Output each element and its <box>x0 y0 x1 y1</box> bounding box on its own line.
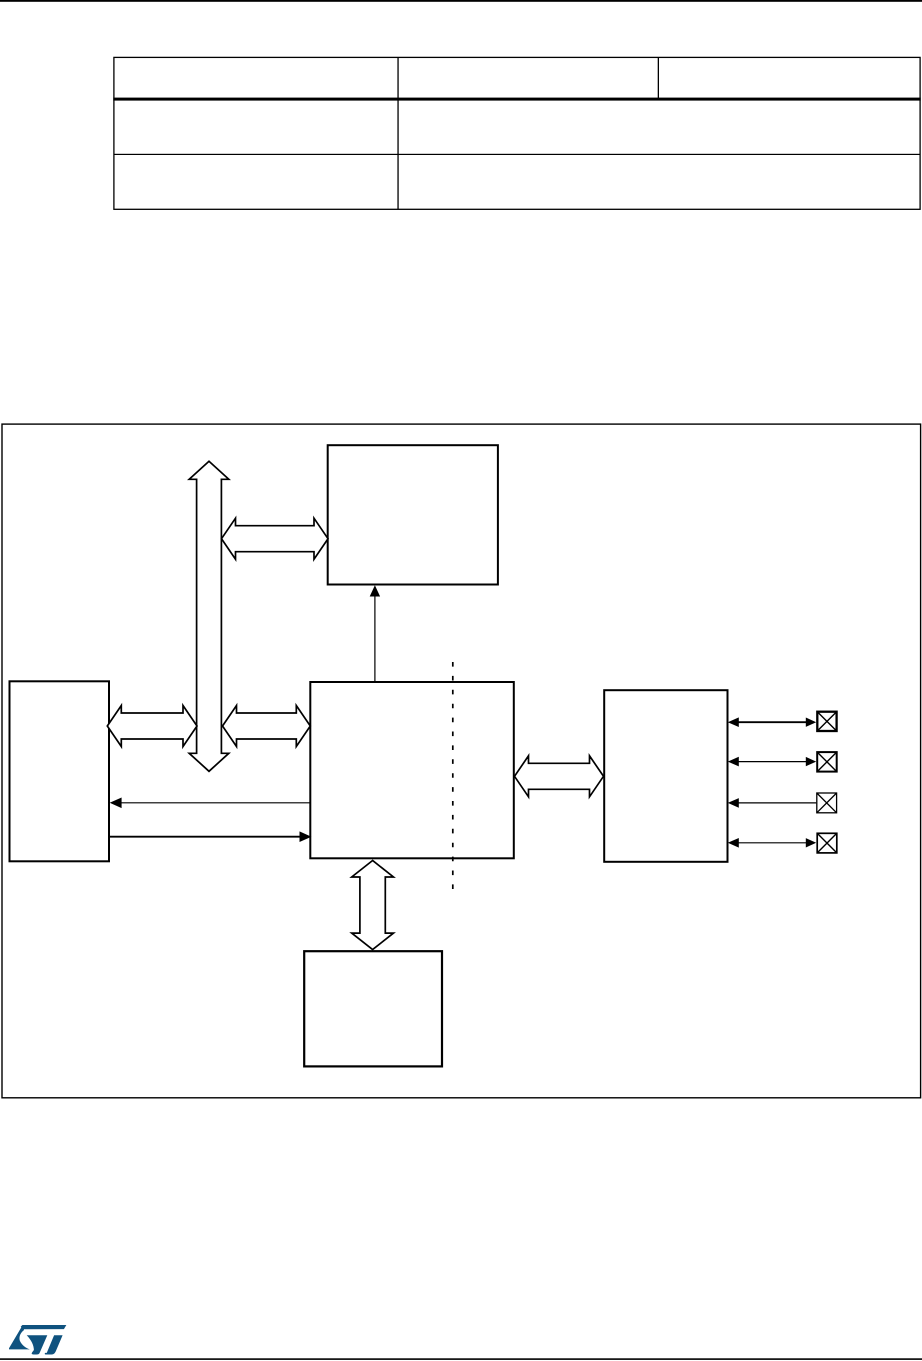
table column line 1 <box>397 57 398 209</box>
thin arrow central box to left box <box>110 798 311 809</box>
horizontal open double arrow to top box <box>222 518 329 559</box>
page top rule <box>0 0 922 2</box>
io line 3 <box>728 798 817 808</box>
table outer border <box>114 57 920 209</box>
horizontal open double arrow central box to right box <box>515 756 604 797</box>
horizontal open double arrow bus to central box <box>223 706 311 747</box>
table header thick separator <box>113 98 920 101</box>
arrow left box to central box <box>110 831 312 842</box>
thin arrow from central box up to top box <box>370 585 380 681</box>
block: right box <box>604 690 727 862</box>
table row separator <box>114 154 920 155</box>
big vertical open double arrow <box>189 461 229 771</box>
io line 4 <box>728 838 816 848</box>
io pad 2 <box>817 752 837 772</box>
io pad 4 <box>817 833 837 853</box>
ST logo <box>9 1325 66 1355</box>
horizontal open double arrow left box to bus <box>107 706 197 747</box>
vertical open double arrow central box to bottom box <box>352 861 394 950</box>
block: left box <box>10 681 110 861</box>
io pad 3 <box>817 793 837 813</box>
block: top box <box>328 445 498 584</box>
io pad 1 <box>817 712 836 731</box>
figure frame <box>2 424 921 1098</box>
io line 1 <box>728 717 816 727</box>
block: central box <box>310 682 514 858</box>
page bottom rule <box>0 1358 922 1360</box>
dashed partition line <box>452 662 454 891</box>
block: bottom box <box>304 951 442 1066</box>
table column line 2 (header only) <box>658 57 659 99</box>
io line 2 <box>728 757 816 767</box>
